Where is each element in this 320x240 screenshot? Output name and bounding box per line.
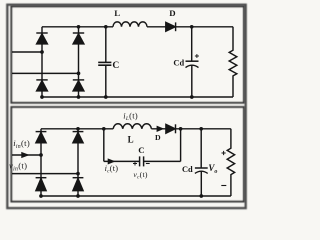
node: C / bottom rail <box>104 95 108 99</box>
diode bridge upper-right (bottom circuit) <box>73 132 84 143</box>
label plus of V_o <box>222 151 226 155</box>
diode bridge upper-left (bottom circuit) <box>36 132 47 143</box>
node: leg2 / bottom rail <box>77 95 81 99</box>
svg-text:L: L <box>128 135 134 145</box>
label minus of C (bottom circuit) <box>146 163 150 165</box>
node: leg1 bottom (bottom circuit) <box>39 194 43 198</box>
svg-text:vin(t): vin(t) <box>9 161 27 173</box>
wire C branch horizontal right <box>144 160 181 162</box>
wire top rail left (bottom circuit) <box>41 128 113 130</box>
bottom panel box <box>11 107 244 202</box>
diode bridge upper-left <box>36 33 47 44</box>
svg-text:iin(t): iin(t) <box>13 138 30 150</box>
wire C branch left drop <box>103 129 105 162</box>
wire ac input 1 <box>12 51 42 53</box>
wire top rail left (bridge output +) <box>42 26 113 28</box>
diode bridge lower-right <box>73 80 84 91</box>
node: leg2 top (bottom circuit) <box>76 127 80 131</box>
load resistor (bottom circuit) <box>227 129 234 196</box>
diode bridge lower-right (bottom circuit) <box>73 178 84 191</box>
top panel box <box>11 6 244 102</box>
arrowhead i_L on wire <box>157 127 162 131</box>
svg-text:ic(t): ic(t) <box>105 164 119 175</box>
svg-text:D: D <box>155 133 161 142</box>
wire bridge leg 1 <box>41 27 43 97</box>
node: C tap / top rail <box>104 25 108 29</box>
svg-text:Cd: Cd <box>182 165 193 174</box>
wire ac input 2 (bottom circuit) <box>12 173 78 175</box>
svg-text:D: D <box>169 8 175 18</box>
label plus of C (bottom circuit) <box>133 162 137 166</box>
diode bridge lower-left (bottom circuit) <box>36 178 47 191</box>
inductor L (top circuit) <box>113 22 147 27</box>
svg-text:C: C <box>112 60 119 71</box>
diode D (bottom circuit) <box>166 124 176 133</box>
node: diode D cathode (bottom circuit) <box>179 127 183 131</box>
wire top rail right <box>147 26 233 28</box>
node: Cd bottom (bottom circuit) <box>199 194 203 198</box>
wire bottom rail (bottom circuit) <box>41 195 231 197</box>
wire C branch horizontal left <box>104 160 140 162</box>
node: Cd tap / top rail <box>190 25 194 29</box>
svg-text:L: L <box>114 8 120 18</box>
node: input2 / leg2 <box>77 72 81 76</box>
wire ac input 1 (bottom circuit) <box>12 154 41 156</box>
node: input2 / leg2 (bottom circuit) <box>76 172 80 176</box>
svg-text:vc(t): vc(t) <box>133 170 148 181</box>
load resistor (top circuit) <box>229 27 237 97</box>
plus sign of Cd (top circuit) <box>195 54 199 58</box>
node: leg2 / top rail <box>77 25 81 29</box>
svg-text:Cd: Cd <box>173 58 184 67</box>
wire top rail right (bottom circuit) <box>151 128 231 130</box>
wire bridge leg 2 (bottom circuit) <box>77 129 79 196</box>
node: leg1 / bottom rail <box>40 95 44 99</box>
outer border frame <box>7 5 245 208</box>
node: input1 / leg1 (bottom circuit) <box>39 153 43 157</box>
node: leg2 bottom (bottom circuit) <box>76 194 80 198</box>
capacitor Cd (bottom circuit, polarized) <box>195 129 208 196</box>
wire C branch right riser <box>180 129 182 162</box>
node: C branch tap (bottom circuit) <box>102 127 106 131</box>
arrowhead i_in <box>22 153 28 157</box>
diode bridge lower-left <box>36 80 47 91</box>
label minus of V_o <box>221 185 226 187</box>
node: Cd / bottom rail <box>190 95 194 99</box>
capacitor Cd (top circuit, polarized) <box>186 27 199 97</box>
wire bottom rail <box>42 96 233 98</box>
wire bridge leg 1 (bottom circuit) <box>40 129 42 196</box>
diode bridge upper-right <box>73 33 84 44</box>
node: input1 / leg1 <box>40 50 44 54</box>
arrowhead i_c on branch <box>108 159 113 163</box>
wire ac input 2 <box>12 72 79 74</box>
wire bridge leg 2 <box>78 27 80 97</box>
inductor L (bottom circuit) <box>113 124 151 129</box>
capacitor C (top circuit) <box>98 27 111 97</box>
svg-text:C: C <box>138 145 144 155</box>
node: Cd top (bottom circuit) <box>199 127 203 131</box>
capacitor C (bottom circuit) <box>140 156 144 166</box>
diode D (top circuit) <box>166 22 176 31</box>
